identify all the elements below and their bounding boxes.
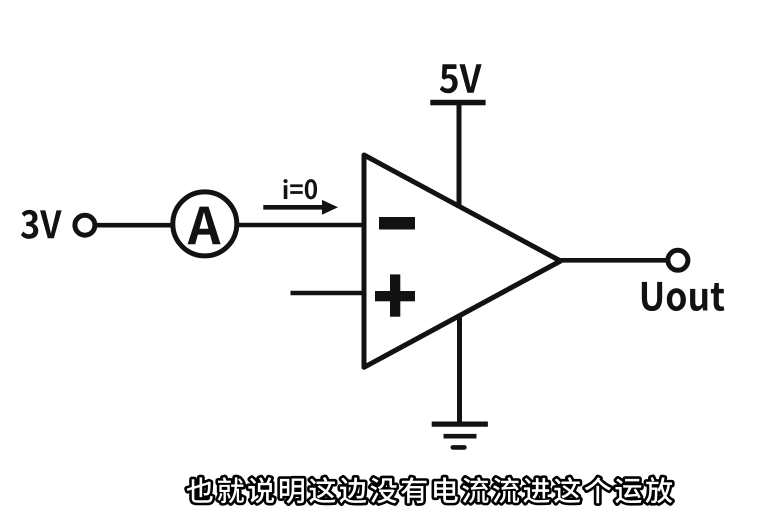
output voltage label Uout	[642, 282, 725, 311]
ground symbol	[432, 422, 488, 427]
ammeter A1 circle	[173, 192, 237, 256]
positive supply label 5V	[440, 64, 482, 93]
current direction arrow	[263, 205, 323, 210]
positive supply rail bar	[430, 100, 485, 106]
op-amp U1 non-inverting input plus sign	[375, 291, 415, 301]
current value label i=0	[283, 179, 317, 199]
wire op-amp negative supply pin to ground	[457, 314, 462, 424]
source voltage label 3V	[21, 210, 62, 239]
wire non-inverting input stub	[291, 291, 365, 296]
wire 5V rail to op-amp positive supply pin	[457, 103, 462, 208]
op-amp U1 triangle body	[364, 155, 561, 367]
wire 3V terminal to ammeter	[96, 223, 174, 228]
subtitle caption text	[187, 477, 673, 503]
ammeter A1 letter A	[188, 207, 221, 245]
node 3V input terminal	[75, 215, 95, 235]
wire ammeter to op-amp inverting input	[237, 223, 364, 228]
wire op-amp output to Uout terminal	[561, 258, 669, 263]
op-amp U1 inverting input minus sign	[379, 217, 415, 230]
node Uout output terminal	[668, 250, 688, 270]
